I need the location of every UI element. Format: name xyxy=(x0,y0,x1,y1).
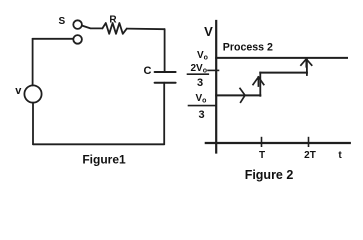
right arrowhead on first step xyxy=(240,88,245,102)
svg-text:v: v xyxy=(15,85,22,97)
wire right vertical upper xyxy=(164,29,166,72)
voltage source V1 xyxy=(24,85,41,102)
svg-text:2Vo: 2Vo xyxy=(191,63,208,75)
svg-text:S: S xyxy=(58,16,65,27)
wire top-left horizontal xyxy=(33,38,73,40)
t axis xyxy=(206,142,350,144)
svg-text:Vo: Vo xyxy=(196,93,207,105)
jump at 2T xyxy=(306,59,308,75)
capacitor C top plate xyxy=(155,71,176,73)
svg-text:3: 3 xyxy=(198,109,204,121)
wire top xyxy=(127,28,165,31)
V axis xyxy=(215,21,217,153)
svg-text:Figure 2: Figure 2 xyxy=(245,168,294,182)
svg-text:C: C xyxy=(144,65,152,77)
step at V0/3 xyxy=(216,94,260,96)
wire left vertical lower xyxy=(32,103,34,145)
svg-text:Vo: Vo xyxy=(197,50,208,62)
svg-text:2T: 2T xyxy=(304,150,316,161)
wire bottom xyxy=(33,143,164,145)
tick 2T xyxy=(308,138,310,147)
jump at T xyxy=(259,73,261,96)
svg-text:V: V xyxy=(204,24,213,39)
capacitor C bottom plate xyxy=(155,82,176,84)
svg-text:t: t xyxy=(338,150,342,161)
step at 2V0/3 xyxy=(260,72,307,74)
level line V0 xyxy=(216,57,347,59)
up arrowhead at 2T jump xyxy=(301,59,312,67)
svg-text:Process 2: Process 2 xyxy=(223,42,273,54)
fraction bar of 2V0/3 xyxy=(188,73,209,75)
tick T xyxy=(261,138,263,147)
svg-text:Figure1: Figure1 xyxy=(82,153,126,167)
tick at 2V0/3 on axis xyxy=(208,69,219,71)
up arrowhead at T jump xyxy=(253,77,264,86)
svg-text:3: 3 xyxy=(197,77,203,89)
switch S blade wire xyxy=(82,26,102,29)
wire right vertical lower xyxy=(163,83,165,145)
switch S lower contact xyxy=(73,35,82,44)
svg-text:R: R xyxy=(109,14,117,25)
svg-text:T: T xyxy=(259,150,265,161)
resistor R zigzag xyxy=(102,23,126,34)
fraction bar of V0/3 xyxy=(189,105,217,107)
wire left vertical upper xyxy=(32,39,34,86)
switch S upper contact xyxy=(73,20,82,29)
